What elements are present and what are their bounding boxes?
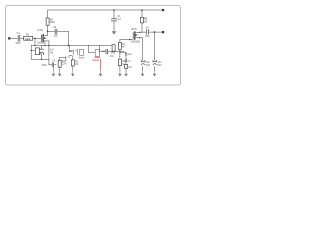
svg-text:1M: 1M: [75, 64, 78, 66]
svg-text:Return: Return: [93, 59, 101, 62]
svg-text:C3: C3: [52, 61, 56, 63]
svg-text:47n: 47n: [54, 36, 59, 38]
svg-text:4k7: 4k7: [122, 47, 126, 49]
svg-text:LND150: LND150: [131, 40, 141, 43]
svg-text:130k: 130k: [25, 37, 31, 41]
svg-text:22M: 22M: [50, 21, 55, 24]
svg-text:560n: 560n: [16, 43, 22, 45]
svg-text:C1: C1: [17, 32, 21, 35]
svg-text:4u7: 4u7: [128, 67, 133, 69]
svg-text:560u: 560u: [42, 65, 48, 67]
svg-text:R7: R7: [122, 44, 126, 46]
svg-text:63V: 63V: [146, 65, 151, 67]
svg-text:C6: C6: [117, 16, 121, 18]
svg-text:R9: R9: [122, 61, 126, 63]
svg-text:Send: Send: [79, 57, 85, 60]
svg-text:LND150: LND150: [37, 41, 47, 44]
svg-text:R5: R5: [75, 61, 79, 63]
svg-text:1u: 1u: [128, 61, 131, 63]
svg-text:C2: C2: [53, 26, 57, 29]
svg-text:1M: 1M: [144, 20, 147, 23]
svg-text:4n7: 4n7: [117, 19, 122, 21]
svg-text:(JT1): (JT1): [37, 29, 43, 32]
svg-text:22M: 22M: [62, 64, 67, 66]
svg-text:C4: C4: [146, 27, 150, 30]
svg-text:10n: 10n: [110, 56, 115, 58]
svg-text:10u: 10u: [146, 62, 151, 64]
svg-text:100n: 100n: [145, 36, 151, 38]
svg-text:7M: 7M: [50, 52, 53, 54]
svg-text:63V: 63V: [157, 65, 162, 67]
svg-text:560n: 560n: [111, 53, 117, 55]
svg-text:(JT2): (JT2): [131, 28, 137, 31]
svg-text:10u: 10u: [157, 62, 162, 64]
svg-text:4u7: 4u7: [50, 50, 55, 52]
svg-text:2u2: 2u2: [128, 54, 133, 56]
svg-text:R4: R4: [62, 61, 66, 63]
